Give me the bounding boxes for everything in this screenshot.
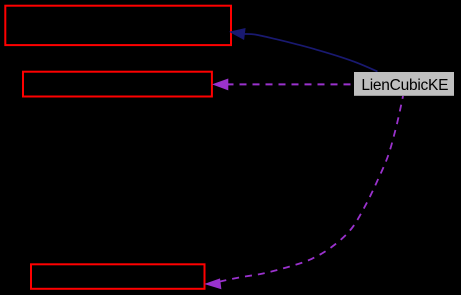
- arrowhead usage box2 (darkorchid): [214, 79, 228, 89]
- node box3 (red-bordered class node, bottom): [31, 264, 205, 289]
- arrowhead inheritance (midnightblue): [230, 29, 245, 40]
- node box1 (red-bordered class node, top): [5, 6, 231, 45]
- edge usage to box2 (darkorchid dashed horizontal): [228, 83, 354, 85]
- node LienCubicKE (grey current node): [354, 72, 454, 96]
- svg-text:LienCubicKE: LienCubicKE: [361, 77, 448, 94]
- edge usage to box3 (darkorchid dashed long curve): [220, 96, 404, 282]
- arrowhead usage box3 (darkorchid): [206, 279, 221, 289]
- edge inheritance (midnightblue solid curve from LienCubicKE to box1): [244, 34, 377, 72]
- node box2 (red-bordered class node, middle): [23, 72, 212, 97]
